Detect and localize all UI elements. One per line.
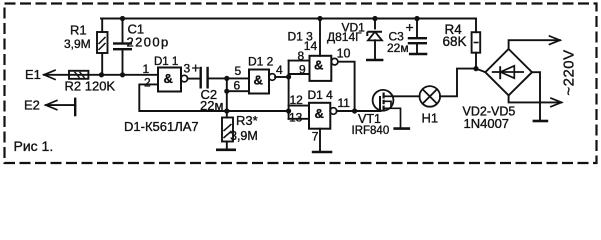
svg-text:D1 1: D1 1	[154, 56, 178, 68]
svg-text:D1 4: D1 4	[308, 88, 334, 102]
svg-text:4: 4	[276, 63, 283, 77]
svg-text:IRF840: IRF840	[352, 125, 390, 137]
svg-text:R2 120K: R2 120K	[65, 79, 116, 94]
svg-text:~220V: ~220V	[561, 49, 578, 95]
svg-text:&: &	[315, 106, 324, 121]
svg-text:1N4007: 1N4007	[464, 116, 510, 131]
svg-text:D1-К561ЛА7: D1-К561ЛА7	[124, 119, 199, 134]
svg-text:7: 7	[312, 129, 319, 143]
svg-text:5: 5	[235, 64, 242, 78]
svg-text:&: &	[254, 73, 263, 88]
svg-text:&: &	[314, 58, 323, 73]
svg-text:E2: E2	[24, 98, 40, 113]
svg-text:+: +	[406, 19, 414, 35]
svg-text:R3*: R3*	[236, 113, 258, 128]
svg-text:3,9M: 3,9M	[64, 37, 91, 51]
svg-text:+: +	[192, 60, 200, 76]
svg-text:VT1: VT1	[358, 112, 381, 126]
svg-text:12: 12	[290, 93, 304, 107]
svg-text:10: 10	[337, 47, 351, 61]
svg-text:11: 11	[338, 96, 351, 110]
svg-text:3,9M: 3,9M	[230, 129, 258, 143]
svg-text:2: 2	[144, 75, 151, 89]
svg-text:13: 13	[289, 111, 303, 125]
svg-text:9: 9	[299, 62, 306, 76]
svg-text:14: 14	[304, 39, 318, 53]
svg-text:&: &	[164, 71, 173, 86]
svg-text:6: 6	[234, 79, 241, 93]
svg-text:1: 1	[143, 62, 150, 76]
svg-text:Рис 1.: Рис 1.	[14, 138, 54, 154]
svg-text:68K: 68K	[443, 34, 467, 49]
svg-text:Д814Г: Д814Г	[327, 30, 362, 44]
svg-text:3: 3	[184, 62, 191, 76]
svg-text:E1: E1	[25, 67, 41, 82]
svg-text:D1 2: D1 2	[248, 55, 274, 69]
svg-text:2200p: 2200p	[127, 35, 170, 50]
svg-text:22м: 22м	[387, 41, 409, 55]
svg-text:R1: R1	[70, 23, 87, 38]
svg-text:22м: 22м	[200, 98, 223, 113]
svg-text:H1: H1	[422, 111, 439, 126]
